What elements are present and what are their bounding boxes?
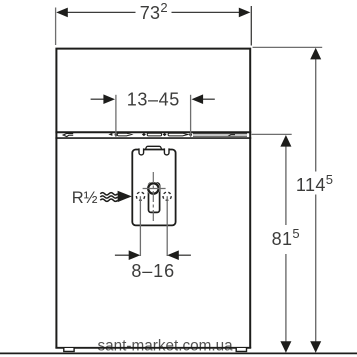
water supply arrow xyxy=(118,191,132,202)
dim 13-45: right extension line xyxy=(190,95,192,137)
svg-text:sant-market.com.ua: sant-market.com.ua xyxy=(98,338,234,355)
band slot 3 with pointed end xyxy=(168,133,188,136)
dim 73: left arrowhead xyxy=(56,8,68,18)
dim 81: up arrowhead xyxy=(280,135,291,147)
dim 81: upper line segment xyxy=(285,146,287,225)
dim 13-45: right arrowhead xyxy=(192,94,204,104)
outlet axis line left xyxy=(139,196,141,256)
dim 114: lower line segment xyxy=(315,195,317,343)
band clip hook left xyxy=(63,133,73,136)
svg-text:13–45: 13–45 xyxy=(127,90,180,110)
dashed circle right xyxy=(163,192,171,200)
mounting plate outline xyxy=(132,150,175,226)
valve crosshair horizontal xyxy=(143,188,166,190)
dim 114: down arrowhead xyxy=(310,341,321,353)
dim 73: left extension line xyxy=(55,8,57,46)
band left slot xyxy=(117,133,131,136)
dim 73: right extension line xyxy=(250,6,252,46)
dim 8-16: left leader line xyxy=(115,254,130,256)
outlet axis line right xyxy=(166,196,168,256)
seam band top line xyxy=(55,131,251,133)
band diamond 1 xyxy=(142,133,146,136)
extension line top right (114 dim) xyxy=(253,46,323,48)
dim 8-16: right arrowhead xyxy=(167,250,179,260)
band diamond 2 xyxy=(163,133,167,136)
left foot xyxy=(64,348,74,351)
dim 8-16: left arrowhead xyxy=(129,250,141,260)
dim 73: line right segment xyxy=(172,11,241,13)
band left slider triangle xyxy=(108,133,112,136)
seam band bottom line xyxy=(55,137,251,139)
dim 8-16: right leader line xyxy=(178,254,191,256)
plate notch right xyxy=(164,148,169,155)
valve circle white halo xyxy=(148,183,158,193)
right foot xyxy=(236,348,246,351)
flush pipe xyxy=(149,183,160,212)
dim 81: lower line segment xyxy=(285,254,287,343)
band rail right upper line xyxy=(193,133,247,135)
dim 81: down arrowhead xyxy=(280,341,291,353)
band rail hook xyxy=(228,135,235,137)
svg-text:8–16: 8–16 xyxy=(131,261,175,281)
dim 73: right arrowhead xyxy=(239,8,251,18)
band screw dot right xyxy=(189,133,192,136)
band slot 2 xyxy=(147,133,161,136)
pipe centerline vertical xyxy=(152,172,154,222)
mounting plate top tab xyxy=(145,146,163,151)
dim 73: line left segment xyxy=(66,11,136,13)
dim 13-45: left arrowhead xyxy=(103,94,115,104)
band screw dot left xyxy=(115,133,118,136)
svg-text:R½: R½ xyxy=(72,189,98,207)
extension line mid right (81 dim) xyxy=(252,133,292,135)
band rail right lower line xyxy=(193,135,247,137)
module bottom edge xyxy=(55,347,251,349)
dim 114: up arrowhead xyxy=(310,48,321,60)
dim 13-45: left leader line xyxy=(91,98,104,100)
valve circle xyxy=(148,183,158,193)
dim 13-45: left extension line xyxy=(115,95,117,137)
module body (tank unit outline, bottom edge drawn later) xyxy=(56,49,250,348)
water supply wave symbol xyxy=(100,193,117,202)
floor line xyxy=(0,352,357,354)
dashed circle left xyxy=(136,192,144,200)
dim 13-45: right leader line xyxy=(203,98,215,100)
dim 114: upper line segment xyxy=(315,59,317,172)
plate notch left xyxy=(139,148,144,155)
